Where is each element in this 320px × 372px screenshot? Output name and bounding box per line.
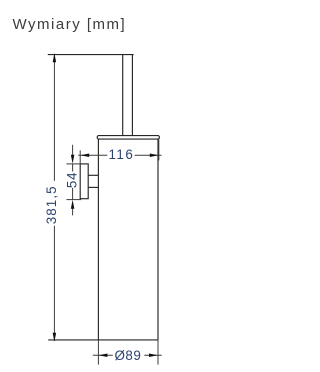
- dim 54 inner segment bottom: [72, 188, 74, 200]
- dim 54 upper leader: [72, 145, 74, 156]
- dim 54 extension line bottom: [66, 199, 81, 201]
- handle left edge: [122, 55, 124, 136]
- dim O89 arrow left: [99, 354, 108, 358]
- dim 116 extension line left: [79, 150, 81, 164]
- wall bracket plate: [80, 164, 88, 199]
- lid: [97, 136, 159, 140]
- body right edge: [157, 139, 159, 340]
- dim 116 arrow right: [150, 153, 159, 157]
- title Wymiary [mm]: [13, 16, 127, 33]
- dim 54 arrow up (lower): [71, 200, 75, 209]
- body bottom + extension line bottom (381,5): [48, 339, 158, 341]
- dim 381,5 arrow up: [53, 53, 57, 62]
- body left edge: [97, 139, 99, 340]
- dim O89 line right part: [144, 354, 161, 356]
- dim 381,5 arrow down: [53, 333, 57, 342]
- svg-text:54: 54: [65, 172, 80, 189]
- svg-text:Ø89: Ø89: [114, 348, 141, 363]
- dim 381,5 line upper segment: [53, 54, 55, 181]
- bracket arm top: [88, 174, 98, 176]
- dim 116 line left part: [78, 154, 107, 156]
- dim 54 arrow down (upper): [71, 155, 75, 164]
- dim 381,5 line lower segment: [53, 226, 55, 341]
- dim 54 extension line top: [66, 163, 80, 165]
- extension line top (381,5) + handle top cap: [48, 54, 134, 56]
- dim O89 line left part: [93, 354, 113, 356]
- dim 54 inner segment top: [72, 164, 74, 172]
- svg-text:116: 116: [108, 147, 134, 162]
- dim 116 extension line right: [158, 139, 160, 160]
- bracket arm bottom: [88, 186, 98, 188]
- dim 116 line right part: [135, 154, 162, 156]
- dim O89 arrow right: [149, 354, 158, 358]
- handle right edge: [131, 55, 133, 136]
- dim O89 extension line left: [97, 340, 99, 365]
- dim O89 extension line right: [157, 340, 159, 365]
- dim 116 arrow left: [80, 153, 89, 157]
- dim 54 lower leader: [72, 208, 74, 215]
- svg-text:381,5: 381,5: [44, 185, 59, 224]
